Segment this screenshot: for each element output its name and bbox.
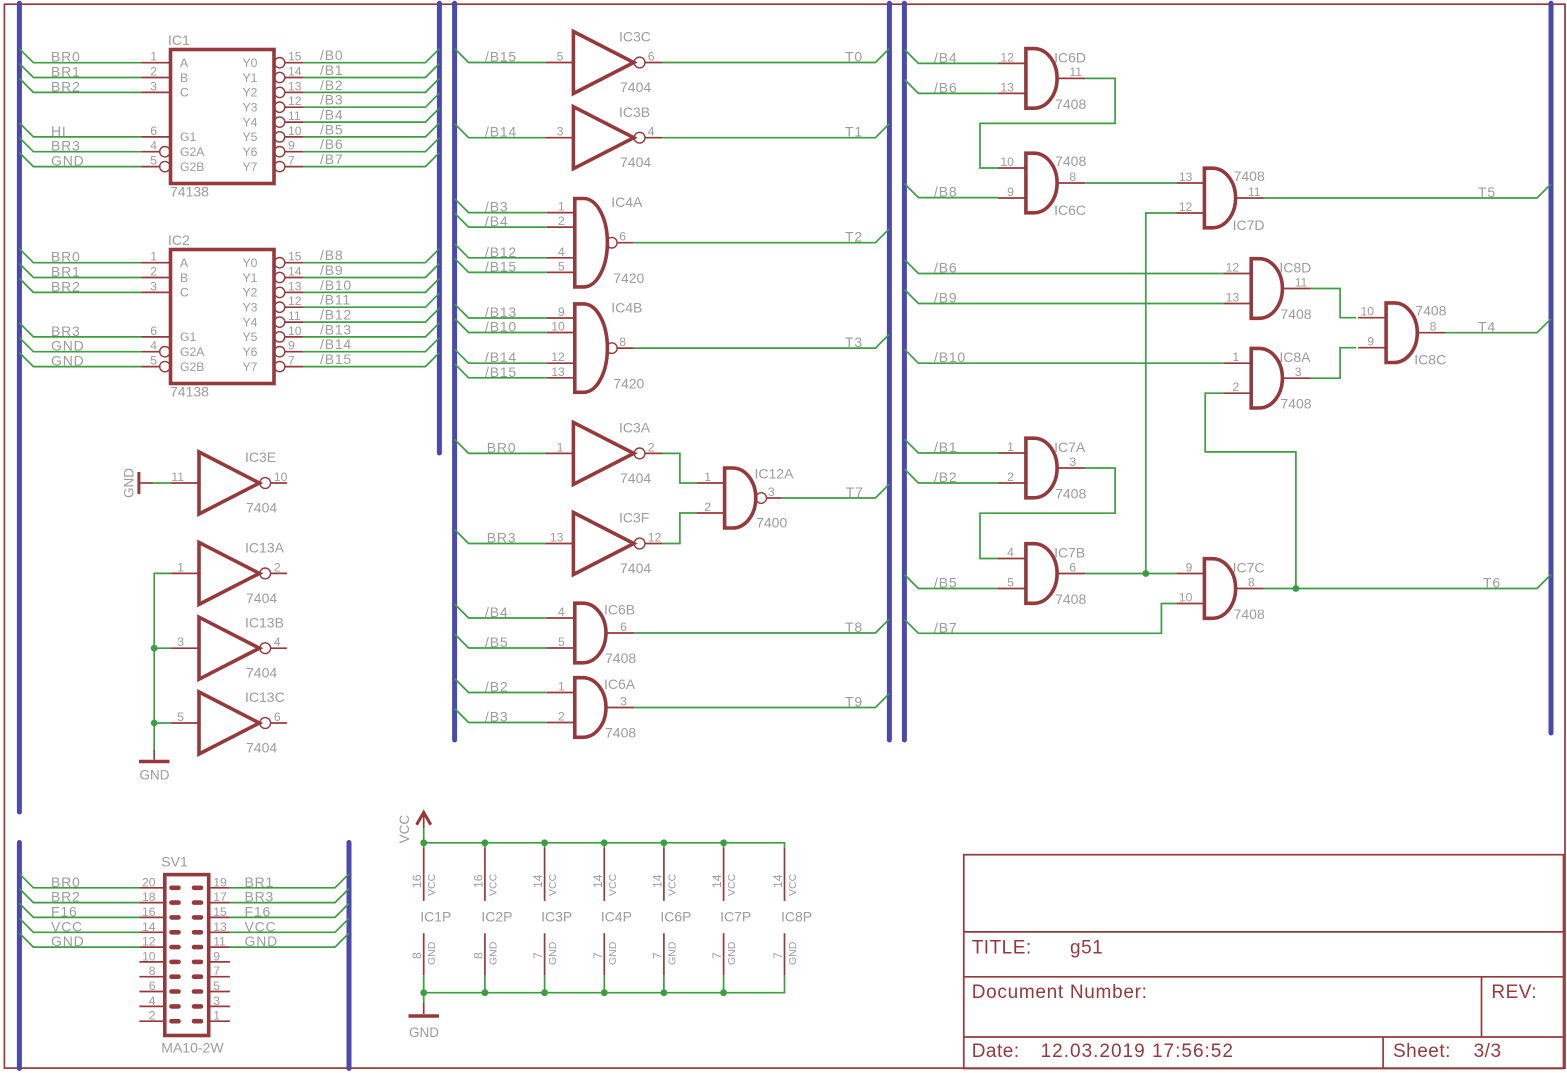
svg-text:Date:: Date: (972, 1041, 1020, 1062)
svg-text:6: 6 (648, 50, 655, 64)
svg-text:/B8: /B8 (320, 247, 343, 263)
svg-text:14: 14 (288, 265, 302, 279)
svg-text:BR3: BR3 (51, 138, 81, 154)
IC6P pin 7 (GND) (650, 933, 678, 993)
svg-text:1: 1 (1007, 440, 1014, 454)
IC2 pin 6 (G1) (142, 324, 171, 338)
svg-text:IC7C: IC7C (1233, 560, 1265, 576)
IC1 pin 1 (A) (142, 50, 171, 64)
wire net GND from SV1 pin 11 (230, 933, 349, 949)
wire net /B9 to IC8D pin 13 (904, 290, 1223, 306)
wire net /B2 to IC6A pin 1 (455, 679, 547, 695)
wire net T7 from IC12A to bus (782, 484, 889, 500)
IC4A pin 2 (547, 214, 575, 228)
svg-text:IC6P: IC6P (660, 909, 691, 925)
IC1 pin 15 (Y0) (274, 50, 303, 68)
svg-text:14: 14 (591, 874, 605, 888)
svg-text:10: 10 (288, 324, 302, 338)
wire net /B13 to IC4B pin 9 (455, 304, 547, 320)
svg-text:7: 7 (591, 952, 605, 959)
bus /B mid-right (bus4) (902, 3, 907, 740)
IC2 pin name C (180, 286, 189, 300)
IC1 pin 10 (Y5) (274, 124, 303, 142)
title block divider 2 (964, 976, 1564, 978)
SV1 pin 3 (194, 994, 230, 1008)
IC4A pin 4 (547, 245, 575, 259)
IC4A pin 1 (547, 200, 575, 214)
svg-text:8: 8 (1430, 320, 1437, 334)
IC1 pin name G2B (180, 160, 204, 174)
svg-text:/B10: /B10 (485, 319, 517, 335)
IC7C pin 8 (output) (1236, 575, 1264, 589)
svg-text:/B9: /B9 (320, 262, 343, 278)
svg-text:12.03.2019 17:56:52: 12.03.2019 17:56:52 (1041, 1041, 1234, 1062)
SV1 value MA10-2W (161, 1040, 224, 1056)
svg-text:GND: GND (426, 941, 438, 965)
junction VCC rail at IC6P (661, 839, 668, 846)
wire net /B6 to IC6D pin 13 (904, 79, 998, 95)
junction VCC rail at IC3P (541, 839, 548, 846)
title block REV divider (1481, 977, 1483, 1037)
svg-text:T1: T1 (845, 124, 863, 140)
AND gate IC6D (7408) body (1026, 49, 1087, 112)
IC1 pin name Y1 (242, 71, 257, 85)
svg-text:/B9: /B9 (934, 290, 957, 306)
svg-text:IC3F: IC3F (619, 510, 649, 526)
svg-text:/B1: /B1 (320, 62, 343, 78)
svg-text:7: 7 (288, 354, 295, 368)
IC1 pin 5 (G2B) (142, 154, 171, 172)
svg-text:3: 3 (768, 485, 775, 499)
junction VCC rail at IC1P (420, 839, 427, 846)
svg-text:5: 5 (150, 154, 157, 168)
svg-text:17: 17 (213, 890, 227, 904)
svg-text:12: 12 (142, 935, 156, 949)
IC8A pin 2 (1223, 380, 1251, 394)
svg-text:/B14: /B14 (320, 336, 352, 352)
SV1 pin 5 (194, 979, 230, 993)
title block Date label (972, 1041, 1020, 1062)
power pin part IC3P (541, 909, 572, 925)
svg-text:G1: G1 (180, 130, 196, 144)
svg-text:g51: g51 (1070, 938, 1103, 959)
wire IC6D out to IC6C pin 10 (980, 78, 1115, 168)
svg-text:7408: 7408 (1415, 303, 1446, 319)
wire net /B3 from IC1 Y3 to bus (303, 92, 439, 108)
svg-text:/B1: /B1 (934, 439, 957, 455)
svg-text:3: 3 (1069, 455, 1076, 469)
IC6B pin 4 (547, 605, 575, 619)
wire GND rail stub to ground (423, 993, 425, 1003)
IC1 pin name G1 (180, 130, 196, 144)
svg-text:2: 2 (274, 560, 281, 574)
IC2 pin name A (180, 256, 189, 270)
power symbol VCC (arrow) (397, 812, 431, 843)
AND gate IC7B (7408) body (1026, 544, 1087, 607)
svg-text:IC13B: IC13B (245, 614, 284, 630)
svg-text:7408: 7408 (1234, 168, 1265, 184)
svg-text:IC13A: IC13A (245, 540, 285, 556)
SV1 pin 7 (194, 964, 230, 978)
IC2 pin 11 (Y4) (274, 309, 303, 327)
svg-text:9: 9 (213, 949, 220, 963)
svg-text:/B15: /B15 (485, 364, 517, 380)
IC3B pin 4 (645, 125, 662, 139)
title block divider 1 (964, 931, 1564, 933)
svg-text:T4: T4 (1478, 319, 1496, 335)
IC4B pin 8 (output) (617, 335, 634, 349)
svg-text:15: 15 (288, 250, 302, 264)
svg-text:IC8C: IC8C (1414, 352, 1446, 368)
title block TITLE label (972, 938, 1032, 959)
svg-text:BR3: BR3 (245, 889, 275, 905)
svg-text:C: C (180, 286, 189, 300)
wire net F16 from SV1 pin 15 (230, 903, 349, 919)
wire IC7B out to IC7C pin 9 (1085, 573, 1176, 575)
wire net /B7 from IC1 Y7 to bus (303, 151, 439, 167)
inverter IC3F body (573, 510, 651, 576)
wire net BR3 to IC2 pin 6 (19, 323, 141, 339)
svg-text:16: 16 (142, 905, 156, 919)
svg-text:BR0: BR0 (487, 439, 517, 455)
wire net /B15 from IC2 Y7 to bus (303, 351, 439, 367)
IC6B pin 6 (output) (606, 620, 634, 634)
IC8A pin 1 (1223, 350, 1251, 364)
svg-text:MA10-2W: MA10-2W (161, 1040, 224, 1056)
svg-text:/B6: /B6 (320, 136, 343, 152)
SV1 pin 16 (139, 905, 178, 919)
svg-text:7404: 7404 (246, 590, 277, 606)
IC1 pin name Y6 (242, 145, 257, 159)
IC8P pin 14 (VCC) (771, 848, 799, 901)
svg-text:11: 11 (1069, 65, 1082, 79)
IC4B pin 9 (547, 305, 575, 319)
inverter IC3B body (573, 104, 651, 170)
svg-text:10: 10 (288, 124, 302, 138)
svg-text:/B4: /B4 (485, 213, 508, 229)
wire net BR1 to IC1 pin 2 (19, 64, 141, 80)
IC2 pin name Y6 (242, 345, 257, 359)
svg-text:VCC: VCC (397, 815, 412, 844)
wire net /B15 to IC4B pin 13 (455, 364, 547, 380)
svg-text:Document Number:: Document Number: (972, 982, 1148, 1003)
title block date value (1041, 1041, 1234, 1062)
connector SV1 body (161, 854, 208, 1036)
IC2 pin name Y4 (242, 315, 257, 329)
wire net T2 from IC4A to bus (634, 229, 890, 245)
svg-text:1: 1 (558, 680, 565, 694)
wire net BR0 to IC2 pin 1 (19, 249, 141, 265)
wire net T4 from IC8C to bus (1446, 319, 1552, 335)
IC1 pin name Y7 (242, 160, 257, 174)
IC2 pin name G2A (180, 345, 205, 359)
svg-text:7408: 7408 (1280, 306, 1311, 322)
svg-text:/B15: /B15 (485, 49, 517, 65)
svg-text:BR2: BR2 (51, 889, 81, 905)
wire GND to IC3E pin 11 (153, 482, 171, 484)
IC1 pin 7 (Y7) (274, 154, 303, 172)
svg-text:BR1: BR1 (51, 264, 81, 280)
IC3C pin 5 (545, 50, 573, 64)
svg-text:10: 10 (1361, 305, 1375, 319)
ground symbol (GND below IC13C) (139, 750, 170, 783)
svg-text:11: 11 (1295, 275, 1308, 289)
svg-text:4: 4 (150, 139, 157, 153)
bus SV1 right (347, 843, 352, 1069)
SV1 pin 14 (139, 920, 178, 934)
SV1 pin 4 (139, 994, 178, 1008)
wire net GND to IC1 pin 5 (19, 153, 141, 169)
wire net GND to IC2 pin 5 (19, 353, 141, 369)
svg-text:BR1: BR1 (245, 874, 275, 890)
svg-text:Y6: Y6 (242, 345, 257, 359)
wire net /B4 from IC1 Y4 to bus (303, 107, 439, 123)
svg-text:11: 11 (1248, 185, 1261, 199)
svg-text:/B7: /B7 (320, 151, 343, 167)
svg-text:GND: GND (51, 933, 85, 949)
IC2 pin 1 (A) (142, 250, 171, 264)
svg-text:7420: 7420 (613, 375, 644, 391)
svg-text:11: 11 (288, 109, 301, 123)
svg-text:13: 13 (1226, 291, 1240, 305)
svg-text:/B3: /B3 (485, 709, 508, 725)
junction GND rail at IC4P (601, 989, 608, 996)
svg-text:7408: 7408 (1055, 153, 1086, 169)
svg-text:F16: F16 (51, 903, 78, 919)
IC3E pin 10 (271, 470, 288, 484)
svg-text:BR2: BR2 (51, 78, 81, 94)
IC2 pin 10 (Y5) (274, 324, 303, 342)
wire VCC arrow to rail (423, 828, 425, 843)
svg-text:6: 6 (274, 710, 281, 724)
IC8D pin 11 (output) (1282, 275, 1310, 289)
title block sheet value 3/3 (1474, 1041, 1502, 1062)
SV1 pin 18 (139, 890, 178, 904)
svg-text:11: 11 (288, 309, 301, 323)
svg-text:6: 6 (1069, 560, 1076, 574)
svg-text:IC13C: IC13C (245, 689, 285, 705)
junction at IC13B input (151, 645, 158, 652)
svg-text:VCC: VCC (787, 873, 799, 896)
svg-text:VCC: VCC (51, 918, 83, 934)
wire net F16 to SV1 pin 16 (19, 903, 139, 919)
IC1 pin name B (180, 71, 188, 85)
wire net T6 from IC7C to bus (1264, 575, 1551, 591)
svg-text:Y1: Y1 (242, 71, 257, 85)
svg-text:IC6D: IC6D (1054, 49, 1086, 65)
svg-text:IC3C: IC3C (619, 29, 651, 45)
svg-text:7408: 7408 (605, 650, 636, 666)
svg-text:12: 12 (1179, 200, 1193, 214)
wire net /B10 from IC2 Y2 to bus (303, 277, 439, 293)
IC7C pin 10 (1176, 591, 1204, 605)
svg-text:/B14: /B14 (485, 349, 517, 365)
wire net BR0 to IC3A pin 1 (455, 439, 546, 455)
IC1 pin 14 (Y1) (274, 65, 303, 83)
svg-text:F16: F16 (245, 903, 272, 919)
svg-text:4: 4 (648, 125, 655, 139)
IC1 pin name G2A (180, 145, 205, 159)
svg-text:Y1: Y1 (242, 271, 257, 285)
wire VCC rail (424, 843, 785, 848)
svg-text:3/3: 3/3 (1474, 1041, 1502, 1062)
svg-text:4: 4 (274, 635, 281, 649)
svg-text:7: 7 (710, 952, 724, 959)
wire net /B5 to IC7B pin 5 (904, 575, 998, 591)
wire IC7A out to IC7B pin 4 (980, 468, 1115, 559)
wire net /B15 to IC3C pin 5 (455, 49, 546, 65)
svg-text:G2A: G2A (180, 345, 205, 359)
bus /B mid-left (bus1) (437, 3, 442, 453)
svg-text:14: 14 (142, 920, 156, 934)
IC6A pin 1 (547, 680, 575, 694)
SV1 pin 1 (194, 1009, 230, 1023)
SV1 pin 17 (194, 890, 230, 904)
SV1 pin 15 (194, 905, 230, 919)
svg-text:GND: GND (487, 941, 499, 965)
svg-text:VCC: VCC (487, 873, 499, 896)
wire net T9 from IC6A to bus (634, 694, 889, 710)
svg-text:1: 1 (150, 50, 157, 64)
SV1 pin 6 (139, 979, 178, 993)
wire net VCC to SV1 pin 14 (19, 918, 139, 934)
svg-text:2: 2 (150, 65, 157, 79)
svg-text:7420: 7420 (613, 270, 644, 286)
AND gate IC8D (7408) body (1251, 259, 1312, 322)
AND gate IC7A (7408) body (1026, 438, 1087, 501)
AND gate IC6A (7408) body (575, 676, 637, 740)
SV1 pin 8 (139, 964, 178, 978)
IC2 value 74138 (170, 384, 209, 400)
svg-text:7: 7 (531, 952, 545, 959)
svg-text:GND: GND (607, 941, 619, 965)
wire net BR0 to IC1 pin 1 (19, 49, 141, 65)
svg-text:/B0: /B0 (320, 47, 343, 63)
svg-text:Y7: Y7 (242, 160, 257, 174)
wire GND rail (424, 987, 785, 992)
svg-text:Y4: Y4 (242, 315, 257, 329)
NAND gate IC4A (7420) body (575, 194, 645, 287)
wire net /B7 to IC7C pin 10 (904, 604, 1176, 636)
svg-text:BR0: BR0 (51, 249, 81, 265)
IC2 pin 14 (Y1) (274, 265, 303, 283)
IC2 pin 13 (Y2) (274, 279, 303, 297)
svg-text:5: 5 (557, 50, 564, 64)
svg-text:13: 13 (213, 920, 227, 934)
wire IC8D out to IC8C pin 10 (1311, 289, 1357, 318)
svg-text:11: 11 (213, 935, 226, 949)
svg-text:4: 4 (149, 994, 156, 1008)
bus BR left (upper) (17, 3, 22, 812)
svg-text:Y2: Y2 (242, 286, 257, 300)
IC2 pin name Y1 (242, 271, 257, 285)
svg-text:VCC: VCC (245, 918, 277, 934)
NAND gate IC4B (7420) body (575, 300, 645, 393)
inverter IC13B body (199, 614, 284, 680)
svg-text:14: 14 (531, 874, 545, 888)
svg-text:1: 1 (1232, 350, 1239, 364)
svg-text:10: 10 (274, 470, 288, 484)
svg-text:13: 13 (550, 531, 564, 545)
svg-text:/B7: /B7 (934, 619, 957, 635)
svg-text:T2: T2 (845, 229, 863, 245)
svg-text:9: 9 (1007, 185, 1014, 199)
svg-text:8: 8 (619, 335, 626, 349)
svg-text:VCC: VCC (607, 873, 619, 896)
IC1 pin 13 (Y2) (274, 79, 303, 97)
svg-text:7408: 7408 (605, 724, 636, 740)
IC IC1 74138 body (168, 32, 274, 184)
svg-text:3: 3 (150, 79, 157, 93)
IC8C pin 10 (1358, 305, 1386, 319)
wire net /B4 to IC6B pin 4 (455, 604, 547, 620)
svg-text:A: A (180, 56, 189, 70)
wire IC7D pin 12 from IC7B output node (1146, 213, 1177, 574)
svg-text:14: 14 (288, 65, 302, 79)
SV1 pin 12 (139, 935, 178, 949)
IC7B pin 6 (output) (1057, 560, 1085, 574)
svg-text:13: 13 (551, 365, 565, 379)
AND gate IC6C (7408) body (1026, 153, 1087, 218)
svg-text:14: 14 (710, 874, 724, 888)
svg-text:7408: 7408 (1234, 606, 1265, 622)
svg-text:1: 1 (557, 440, 564, 454)
svg-text:14: 14 (771, 874, 785, 888)
wire net /B3 to IC4A pin 1 (455, 199, 547, 215)
IC13C pin 5 (171, 710, 199, 724)
IC1 pin 12 (Y3) (274, 94, 303, 112)
IC13A pin 1 (171, 560, 199, 574)
svg-text:B: B (180, 271, 188, 285)
svg-text:13: 13 (288, 279, 302, 293)
IC4B pin 10 (547, 320, 575, 334)
wire net GND to IC2 pin 4 (19, 338, 141, 354)
svg-text:7408: 7408 (1280, 396, 1311, 412)
inverter IC3A body (573, 420, 651, 486)
svg-text:7404: 7404 (620, 154, 651, 170)
svg-text:18: 18 (142, 890, 156, 904)
svg-text:IC8A: IC8A (1279, 349, 1311, 365)
svg-text:Y4: Y4 (242, 115, 257, 129)
IC12A pin 2 (697, 500, 725, 514)
wire net /B15 to IC4A pin 5 (455, 258, 547, 274)
IC2 pin 2 (B) (142, 265, 171, 279)
svg-text:/B4: /B4 (485, 604, 508, 620)
svg-text:BR0: BR0 (51, 874, 81, 890)
svg-text:12: 12 (288, 94, 302, 108)
bus /B mid-left (bus2) (452, 3, 457, 740)
SV1 pin 19 (194, 875, 230, 889)
svg-text:2: 2 (558, 214, 565, 228)
title block outline (964, 855, 1564, 1069)
IC3P pin 7 (GND) (531, 933, 559, 993)
svg-text:6: 6 (149, 979, 156, 993)
svg-text:19: 19 (213, 875, 227, 889)
svg-text:10: 10 (551, 320, 565, 334)
wire net /B14 to IC3B pin 3 (455, 124, 546, 140)
svg-text:12: 12 (288, 294, 302, 308)
svg-text:7408: 7408 (1055, 591, 1086, 607)
svg-text:C: C (180, 86, 189, 100)
svg-text:IC2P: IC2P (481, 909, 512, 925)
IC2 pin name G1 (180, 330, 196, 344)
wire net /B10 to IC8A pin 1 (904, 349, 1223, 365)
svg-text:/B12: /B12 (485, 244, 517, 260)
svg-text:13: 13 (1179, 170, 1193, 184)
IC1 value 74138 (170, 184, 209, 200)
wire net /B3 to IC6A pin 2 (455, 709, 547, 725)
SV1 pin 9 (194, 949, 230, 963)
